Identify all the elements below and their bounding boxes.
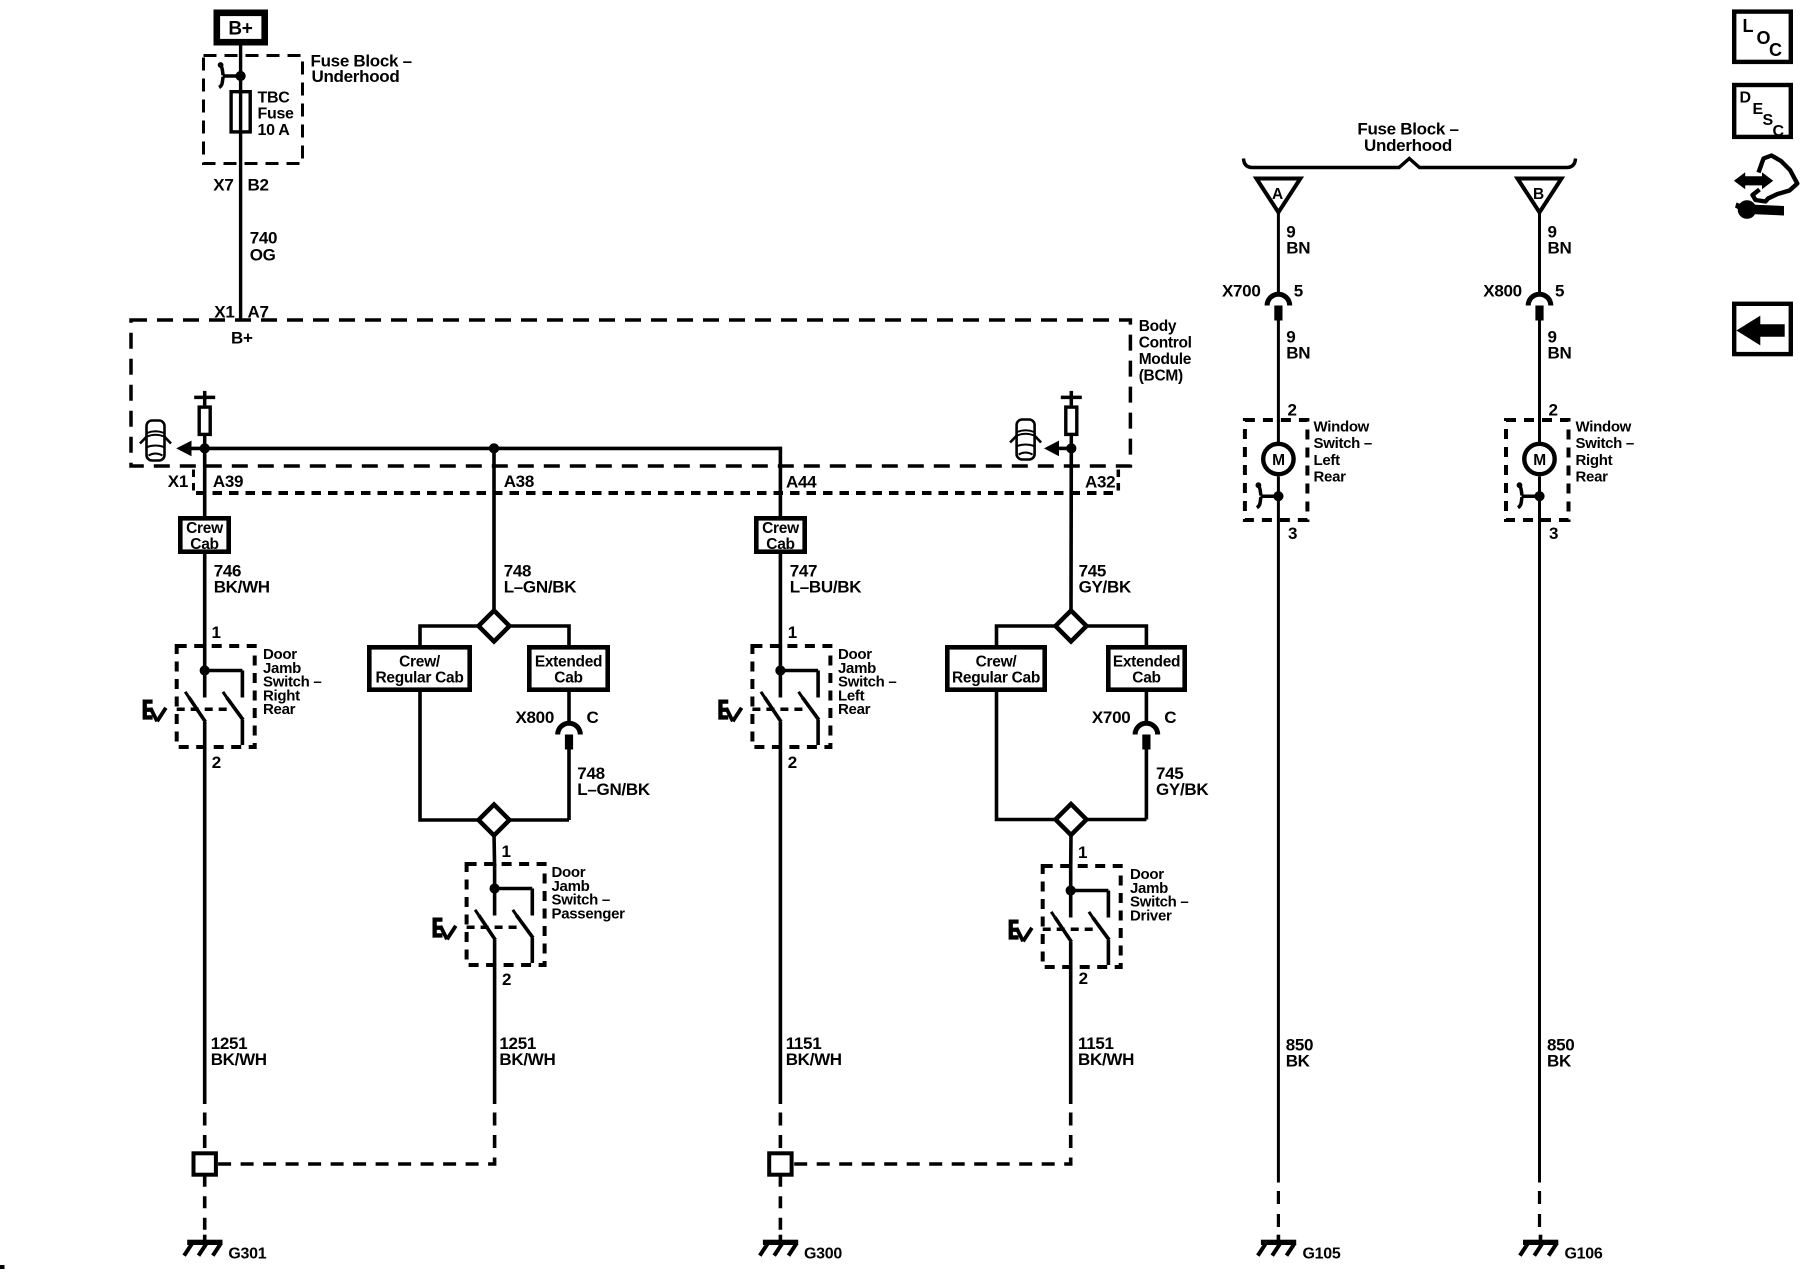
dashed wire to ground G106	[1538, 1191, 1541, 1236]
wire through fuse down to BCM	[239, 91, 242, 320]
svg-text:X700: X700	[1092, 708, 1131, 727]
dashed wire driver leg to splice S300	[792, 1113, 1071, 1165]
dashed wire to ground G105	[1277, 1191, 1280, 1236]
svg-text:L–GN/BK: L–GN/BK	[504, 578, 578, 597]
svg-text:A38: A38	[504, 472, 534, 491]
option box Extended Cab (right)	[1108, 647, 1184, 689]
wire label 746 BK/WH	[214, 562, 270, 597]
fuse TBC 10A rectangle	[231, 92, 250, 132]
svg-text:BK: BK	[1547, 1052, 1572, 1071]
svg-text:Fuse: Fuse	[258, 106, 295, 123]
svg-text:A44: A44	[786, 473, 817, 492]
wire A38 from BCM to top splice diamond	[492, 448, 496, 612]
door jamb switch right rear label	[263, 646, 321, 718]
fuse block output triangle B	[1518, 179, 1562, 213]
svg-text:BK/WH: BK/WH	[1078, 1050, 1134, 1069]
door jamb switch passenger label	[552, 864, 626, 922]
car icon left inside BCM	[140, 421, 171, 461]
svg-text:Window: Window	[1576, 419, 1632, 436]
svg-text:B: B	[1533, 186, 1544, 203]
svg-text:Control: Control	[1139, 335, 1192, 352]
svg-text:G301: G301	[228, 1246, 266, 1263]
svg-text:B+: B+	[231, 329, 253, 348]
svg-text:BK/WH: BK/WH	[214, 578, 270, 597]
wire label 748 L-GN/BK (top)	[504, 562, 578, 597]
ground G105 symbol	[1258, 1235, 1296, 1256]
svg-text:Regular Cab: Regular Cab	[952, 670, 1040, 687]
terminal clip at fuse	[218, 63, 245, 88]
wire 748 L-GN/BK below connector	[567, 749, 571, 820]
svg-text:Crew: Crew	[762, 520, 800, 537]
body control module (BCM) dashed box	[131, 320, 1130, 466]
connector X1 strip dotted bottom line	[196, 491, 1118, 495]
ground G301 symbol	[184, 1235, 222, 1256]
wire label 740 OG	[250, 228, 277, 264]
DESC navigation box	[1734, 85, 1791, 140]
wire 9 BN from triangle B	[1538, 211, 1541, 295]
dashed wire splice to ground G300	[779, 1175, 783, 1236]
svg-text:BK/WH: BK/WH	[499, 1050, 555, 1069]
wire label 1151 BK/WH (left rear)	[786, 1034, 842, 1069]
fuse block name label	[311, 52, 412, 87]
inline connector X800 pin C	[558, 723, 581, 749]
dashed wire to splice S300	[779, 1113, 783, 1154]
door jamb switch driver label	[1130, 866, 1188, 924]
svg-text:BN: BN	[1286, 239, 1310, 258]
svg-text:1: 1	[502, 842, 511, 861]
svg-text:C: C	[587, 708, 599, 727]
svg-text:X7: X7	[213, 176, 233, 195]
door jamb switch - passenger	[433, 864, 545, 965]
fuse block output triangle A	[1256, 179, 1300, 213]
svg-text:GY/BK: GY/BK	[1079, 578, 1132, 597]
svg-text:Driver: Driver	[1130, 907, 1172, 924]
svg-text:OG: OG	[250, 246, 276, 265]
svg-text:2: 2	[502, 970, 511, 989]
wire label 9 BN (A upper)	[1286, 222, 1310, 257]
wire from B+ into fuse block	[239, 46, 242, 92]
right branch wire into bottom diamond	[509, 818, 570, 822]
brace over fuse block triangles	[1244, 159, 1576, 168]
svg-text:A39: A39	[213, 472, 243, 491]
wire 9 BN from triangle A	[1277, 211, 1280, 295]
svg-text:X1: X1	[168, 472, 188, 491]
window switch - right rear	[1506, 420, 1569, 520]
power node B+ box	[217, 13, 265, 42]
svg-text:Left: Left	[1314, 452, 1341, 469]
svg-text:Switch –: Switch –	[1314, 435, 1372, 452]
splice diamond bottom (A38)	[479, 805, 510, 836]
wire label 1151 BK/WH (driver)	[1078, 1034, 1134, 1069]
svg-text:Window: Window	[1314, 419, 1370, 436]
splice diamond bottom (A32)	[1056, 804, 1087, 835]
edge mark artifact	[0, 1266, 4, 1269]
svg-text:2: 2	[788, 753, 797, 772]
svg-text:D: D	[1740, 90, 1751, 107]
svg-text:Regular Cab: Regular Cab	[376, 670, 464, 687]
svg-text:L: L	[1743, 16, 1754, 36]
dashed wire splice to ground G301	[203, 1175, 207, 1236]
svg-text:G300: G300	[804, 1246, 842, 1263]
svg-text:3: 3	[1549, 524, 1558, 543]
wire 850 BK (right)	[1538, 520, 1541, 1183]
junction dot A32	[1067, 444, 1076, 453]
svg-text:L–BU/BK: L–BU/BK	[790, 578, 863, 597]
ground G106 symbol	[1520, 1235, 1558, 1256]
svg-text:C: C	[1773, 123, 1785, 140]
svg-text:G105: G105	[1303, 1246, 1341, 1263]
wire 1151 BK/WH (left rear leg, solid)	[779, 747, 783, 1104]
wire label 850 BK (right)	[1547, 1035, 1574, 1070]
svg-text:Crew: Crew	[186, 520, 224, 537]
svg-text:Body: Body	[1139, 318, 1177, 335]
svg-text:A32: A32	[1085, 473, 1115, 492]
arrow stub wire right	[1057, 447, 1071, 451]
option box Crew/Regular Cab (left)	[369, 647, 469, 689]
window switch right rear label	[1576, 419, 1634, 486]
right branch wire into bottom diamond (right column)	[1086, 818, 1147, 822]
option box Extended Cab (left)	[529, 647, 607, 689]
door jamb switch left rear label	[838, 646, 896, 718]
wire diamond to driver jamb switch	[1069, 834, 1073, 869]
svg-text:Rear: Rear	[1314, 469, 1347, 486]
wire 1251 BK/WH (passenger leg, solid)	[493, 965, 497, 1104]
wire Extended Cab to connector X700	[1145, 690, 1149, 723]
wire 9 BN to window switch left rear	[1277, 320, 1280, 422]
svg-text:10 A: 10 A	[258, 122, 291, 139]
svg-text:2: 2	[212, 753, 221, 772]
svg-text:X800: X800	[515, 708, 554, 727]
svg-text:TBC: TBC	[258, 90, 291, 107]
back arrow box	[1734, 304, 1791, 354]
window switch - left rear	[1245, 420, 1308, 520]
svg-text:BK/WH: BK/WH	[786, 1050, 842, 1069]
wire label 9 BN (A lower)	[1286, 328, 1310, 363]
wire A39 from BCM to Crew Cab box	[203, 448, 207, 518]
svg-text:B2: B2	[248, 176, 269, 195]
wire 1251 BK/WH (right rear leg, solid)	[203, 747, 207, 1104]
wire label 748 L-GN/BK (mid)	[577, 764, 651, 799]
LOC navigation box	[1734, 12, 1791, 62]
svg-text:Crew/: Crew/	[399, 653, 441, 670]
door jamb switch - left rear	[719, 646, 831, 747]
door jamb switch - driver	[1009, 866, 1121, 967]
svg-text:Crew/: Crew/	[976, 653, 1018, 670]
svg-text:BN: BN	[1548, 239, 1572, 258]
wire label 1251 BK/WH (passenger)	[499, 1034, 555, 1069]
wire 850 BK (left)	[1277, 520, 1280, 1183]
wire to Crew/Regular Cab (left branch)	[420, 626, 480, 647]
coil element left inside BCM	[194, 391, 215, 449]
svg-text:1: 1	[212, 623, 221, 642]
junction dot A38	[489, 444, 498, 453]
option box Crew Cab (right)	[756, 518, 804, 553]
wire label 747 L-BU/BK	[790, 562, 863, 597]
wire 9 BN to window switch right rear	[1538, 320, 1541, 422]
svg-text:Cab: Cab	[1132, 670, 1160, 687]
wire 1151 BK/WH (driver leg, solid)	[1069, 967, 1073, 1104]
svg-text:2: 2	[1079, 969, 1088, 988]
svg-text:Rear: Rear	[1576, 469, 1609, 486]
fuse block underhood label (right)	[1357, 120, 1458, 155]
fuse value label TBC Fuse 10 A	[258, 90, 295, 139]
svg-text:BK/WH: BK/WH	[211, 1050, 267, 1069]
inline connector X700 pin C	[1135, 723, 1158, 749]
svg-text:Underhood: Underhood	[1364, 136, 1452, 155]
wire 746 BK/WH	[203, 552, 207, 647]
wire label 745 GY/BK (top)	[1079, 562, 1132, 597]
svg-text:BK: BK	[1286, 1052, 1311, 1071]
junction dot A39	[200, 444, 209, 453]
arrowhead to car (left)	[176, 441, 191, 457]
wire to Extended Cab (right column)	[1086, 626, 1147, 647]
svg-text:C: C	[1769, 40, 1782, 60]
svg-text:G106: G106	[1565, 1246, 1603, 1263]
dashed wire passenger leg to splice S301	[216, 1113, 495, 1165]
left branch wire down from Crew/Regular Cab	[420, 690, 480, 820]
wire label 9 BN (B upper)	[1548, 222, 1572, 257]
fuse block underhood dashed box	[204, 56, 303, 164]
inline connector X800 pin 5	[1528, 294, 1551, 320]
svg-text:L–GN/BK: L–GN/BK	[577, 780, 651, 799]
svg-text:BN: BN	[1286, 344, 1310, 363]
svg-text:Rear: Rear	[263, 701, 296, 718]
svg-text:Cab: Cab	[554, 670, 582, 687]
wire 747 L-BU/BK	[779, 552, 783, 647]
svg-text:BN: BN	[1548, 344, 1572, 363]
splice S301 square	[194, 1153, 216, 1174]
svg-text:2: 2	[1549, 401, 1558, 420]
svg-text:1: 1	[1078, 843, 1087, 862]
splice diamond top (A32)	[1056, 611, 1087, 642]
door jamb switch - right rear	[143, 646, 255, 747]
svg-text:GY/BK: GY/BK	[1156, 780, 1209, 799]
svg-text:(BCM): (BCM)	[1139, 368, 1183, 385]
arrowhead to car (right)	[1044, 441, 1059, 457]
svg-text:C: C	[1164, 708, 1176, 727]
svg-text:2: 2	[1288, 401, 1297, 420]
wire label 1251 BK/WH (left)	[211, 1034, 267, 1069]
window switch left rear label	[1314, 419, 1372, 486]
svg-text:Cab: Cab	[190, 536, 218, 553]
svg-text:Switch –: Switch –	[1576, 435, 1634, 452]
BCM name label	[1139, 318, 1192, 385]
parts/interchange icon (arrows and wrench)	[1734, 156, 1797, 219]
left branch wire down (right column)	[997, 690, 1057, 820]
svg-text:3: 3	[1288, 524, 1297, 543]
svg-text:1: 1	[788, 623, 797, 642]
wire A32 from BCM to top splice diamond	[1069, 448, 1073, 612]
svg-text:X700: X700	[1222, 282, 1261, 301]
connector X1 strip left separator	[192, 470, 195, 493]
wire to Crew/Regular Cab (right column)	[997, 626, 1057, 647]
car icon right inside BCM	[1010, 420, 1041, 460]
svg-text:Extended: Extended	[1113, 653, 1180, 670]
option box Crew Cab (left)	[180, 518, 228, 553]
wire label 850 BK (left)	[1286, 1035, 1313, 1070]
wire label 9 BN (B lower)	[1548, 328, 1572, 363]
svg-text:Right: Right	[1576, 452, 1613, 469]
svg-text:Module: Module	[1139, 351, 1192, 368]
wire dashed to splice S301	[203, 1113, 207, 1154]
svg-text:740: 740	[250, 228, 277, 247]
internal bus wire y=448	[189, 447, 780, 451]
wire 745 GY/BK below connector	[1145, 749, 1149, 820]
wire Extended Cab to connector X800	[567, 690, 571, 723]
splice diamond top (A38)	[479, 611, 510, 642]
wire to Extended Cab (right branch)	[509, 626, 570, 647]
option box Crew/Regular Cab (right)	[947, 647, 1044, 689]
svg-text:Passenger: Passenger	[552, 905, 626, 922]
svg-text:Cab: Cab	[766, 536, 794, 553]
svg-text:Rear: Rear	[838, 701, 871, 718]
ground G300 symbol	[760, 1235, 798, 1256]
svg-text:5: 5	[1555, 282, 1564, 301]
inline connector X700 pin 5	[1267, 294, 1290, 320]
wire A44 from bus corner to Crew Cab box	[779, 447, 783, 518]
svg-text:Underhood: Underhood	[312, 67, 400, 86]
svg-text:A: A	[1272, 186, 1283, 203]
svg-text:B+: B+	[228, 19, 252, 40]
wire diamond to passenger jamb switch	[492, 834, 496, 866]
coil element right inside BCM	[1061, 391, 1082, 449]
splice S300 square	[769, 1153, 791, 1174]
wire label 745 GY/BK (mid)	[1156, 764, 1209, 799]
svg-text:5: 5	[1294, 282, 1303, 301]
svg-text:X800: X800	[1483, 282, 1522, 301]
svg-text:Extended: Extended	[535, 653, 602, 670]
connector X1 strip right edge	[1117, 470, 1121, 493]
